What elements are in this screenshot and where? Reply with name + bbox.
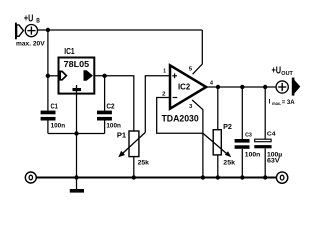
wire: pin1 net (P1 wiper up to +input)	[145, 76, 169, 133]
wire: vertical x=48 down to C1	[47, 30, 49, 111]
svg-text:78L05: 78L05	[64, 60, 90, 69]
output terminal circle +	[276, 81, 288, 93]
svg-text:25k: 25k	[223, 160, 235, 167]
svg-text:1: 1	[163, 69, 166, 75]
svg-text:C4: C4	[267, 132, 276, 138]
node junction ground stub at rail	[74, 175, 78, 179]
wire: pin3 gnd stub	[192, 100, 203, 178]
capacitor C3	[235, 139, 250, 149]
svg-text:OUT: OUT	[281, 71, 293, 77]
svg-text:IC2: IC2	[178, 82, 191, 91]
svg-text:max.: max.	[272, 102, 281, 107]
node junction C3 top	[240, 85, 244, 89]
right terminal 0	[276, 172, 287, 183]
label +UOUT	[272, 65, 294, 77]
wire: C3 top vertical	[241, 87, 243, 139]
wire: C4 bottom to rail	[264, 148, 266, 177]
wire: C2 bottom	[104, 121, 106, 134]
svg-text:25k: 25k	[138, 159, 150, 166]
label +UB	[24, 14, 40, 25]
op-amp IC2 triangle	[170, 65, 206, 108]
input plug connector	[16, 23, 24, 40]
wire: P1 bottom to rail	[133, 157, 135, 178]
wire: C2 top vertical	[104, 76, 106, 111]
node junction at x=48 top rail	[46, 28, 50, 32]
wire: input circle to top rail	[37, 29, 202, 31]
node junction P2 bottom	[216, 175, 220, 179]
wire: C4 top vertical	[264, 87, 266, 139]
svg-text:TDA2030: TDA2030	[162, 113, 199, 123]
svg-text:P2: P2	[223, 124, 232, 131]
output arrow (solid)	[84, 71, 92, 81]
svg-text:B: B	[36, 18, 40, 25]
svg-text:3: 3	[189, 104, 192, 110]
input terminal circle +	[25, 25, 37, 37]
node junction C4 top	[263, 85, 267, 89]
left terminal 0	[25, 172, 36, 183]
wire: output rail pin4	[206, 86, 277, 88]
wire: IC1 output 5V rail	[94, 76, 134, 131]
svg-text:63V: 63V	[267, 158, 280, 165]
wire: IC1 gnd stub down to rail	[76, 94, 78, 178]
input arrow (hollow)	[60, 71, 66, 79]
wire: C1 bottom to gnd stub	[47, 121, 49, 134]
svg-text:IC1: IC1	[64, 47, 75, 56]
wire: pin5 supply stub	[193, 30, 203, 74]
node junction C3 bottom	[240, 175, 244, 179]
IC1 regulator box	[59, 58, 95, 94]
capacitor C4 electrolytic	[254, 139, 271, 148]
capacitor C2	[97, 111, 112, 121]
node junction P1 bottom	[132, 175, 136, 179]
svg-text:C2: C2	[106, 104, 114, 111]
svg-text:5: 5	[189, 67, 192, 73]
node junction P2 top	[216, 85, 220, 89]
svg-text:P1: P1	[117, 133, 126, 140]
ground tab	[76, 85, 78, 88]
wire: P2 bottom to rail	[217, 155, 219, 178]
svg-text:2: 2	[162, 91, 165, 97]
svg-text:100n: 100n	[51, 123, 66, 130]
node junction C4 bottom	[263, 175, 267, 179]
output arrow (solid)	[292, 78, 301, 96]
svg-text:C1: C1	[51, 104, 58, 111]
ground symbol	[70, 178, 84, 193]
potentiometer P1	[118, 131, 145, 157]
svg-text:100n: 100n	[245, 151, 261, 158]
wire: P2 top vertical	[217, 87, 219, 130]
wire: to IC1 input	[48, 75, 59, 77]
wire: C3 bottom to rail	[241, 149, 243, 178]
svg-text:I: I	[269, 99, 271, 106]
wire: C1-C2 bottom horizontal	[48, 133, 105, 135]
svg-text:+U: +U	[24, 14, 33, 25]
label I max = 3A	[269, 99, 295, 107]
node junction C2 top	[102, 74, 106, 78]
svg-text:+U: +U	[272, 65, 282, 76]
node junction gnd stub	[74, 131, 78, 135]
wire: pin2 net (feedback to P2 wiper)	[157, 98, 203, 134]
svg-text:C3: C3	[245, 132, 253, 138]
potentiometer P2	[203, 130, 231, 158]
node junction at IC1 input branch	[46, 74, 50, 78]
svg-text:max. 20V: max. 20V	[16, 40, 46, 47]
node junction pin3 at rail	[201, 175, 205, 179]
svg-text:100n: 100n	[106, 123, 121, 130]
svg-text:= 3A: = 3A	[282, 99, 295, 106]
ground rail (bottom)	[36, 177, 276, 179]
capacitor C1	[41, 111, 56, 121]
